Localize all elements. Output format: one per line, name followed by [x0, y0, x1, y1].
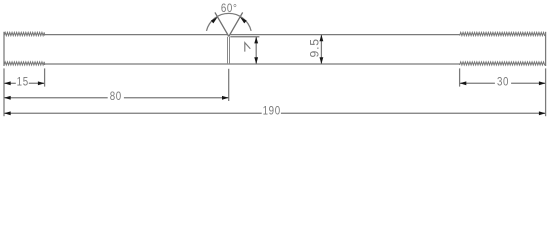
extension line left knurl end (x=44.6)	[44, 68, 46, 86]
right grip knurled bottom edge	[460, 62, 546, 65]
dimension 15 text	[17, 76, 29, 89]
angle dimension arc 60 deg	[206, 13, 251, 30]
dimension 30 left arrowhead	[460, 81, 467, 85]
svg-text:30: 30	[497, 76, 509, 89]
dimension 30 right arrowhead	[539, 81, 546, 85]
svg-text:80: 80	[110, 90, 122, 103]
right grip knurled top edge	[460, 32, 546, 35]
bar top edge left of notch	[45, 34, 228, 36]
dimension 15 line	[4, 82, 45, 84]
notch left flank (extended for angle callout)	[215, 12, 229, 36]
dimension 80 left arrowhead	[4, 96, 11, 100]
dimension 15 left arrowhead	[4, 81, 11, 85]
notch root right side line	[229, 37, 231, 64]
dimension 80 right arrowhead	[222, 96, 229, 100]
dimension 9.5 line	[320, 35, 322, 64]
dimension 7 line	[255, 37, 257, 64]
dimension 7 text (rotated)	[245, 43, 251, 52]
dimension 190 text	[263, 105, 281, 118]
svg-text:190: 190	[263, 105, 281, 118]
dimension 9.5 top arrowhead	[320, 35, 324, 42]
bar top edge right of notch	[230, 34, 459, 36]
svg-text:60°: 60°	[221, 2, 238, 15]
angle dimension left arrowhead	[211, 17, 218, 23]
svg-text:9.5: 9.5	[308, 38, 322, 57]
notch root left side line	[227, 37, 229, 64]
extension line notch root depth (y=36.7)	[230, 36, 259, 38]
extension line right end (x=545.6)	[545, 68, 547, 116]
left grip knurled bottom edge	[4, 62, 45, 65]
dimension 80 text	[110, 90, 122, 103]
dimension 9.5 bottom arrowhead	[320, 57, 324, 64]
extension line notch centre (x=228.7)	[228, 69, 230, 101]
bar right end face	[545, 32, 547, 66]
svg-text:15: 15	[17, 76, 29, 89]
dimension 15 right arrowhead	[38, 81, 45, 85]
dimension 190 right arrowhead	[539, 111, 546, 115]
dimension 190 line	[4, 112, 546, 114]
angle dimension text 60 deg	[221, 2, 238, 15]
dimension 30 line	[460, 82, 546, 84]
dimension 190 left arrowhead	[4, 111, 11, 115]
dimension 80 line	[4, 97, 229, 99]
extension line right knurl start (x=459.6)	[459, 68, 461, 86]
notch right flank (extended for angle callout)	[229, 12, 243, 36]
dimension 7 top arrowhead	[254, 37, 258, 44]
angle dimension right arrowhead	[240, 17, 247, 23]
extension line left end (x=4)	[3, 68, 5, 116]
dimension 9.5 text (rotated)	[308, 38, 322, 57]
dimension 7 bottom arrowhead	[254, 57, 258, 64]
left grip knurled top edge	[4, 32, 45, 35]
bar bottom edge	[45, 63, 460, 65]
dimension 30 text	[497, 76, 509, 89]
bar left end face	[3, 32, 5, 66]
